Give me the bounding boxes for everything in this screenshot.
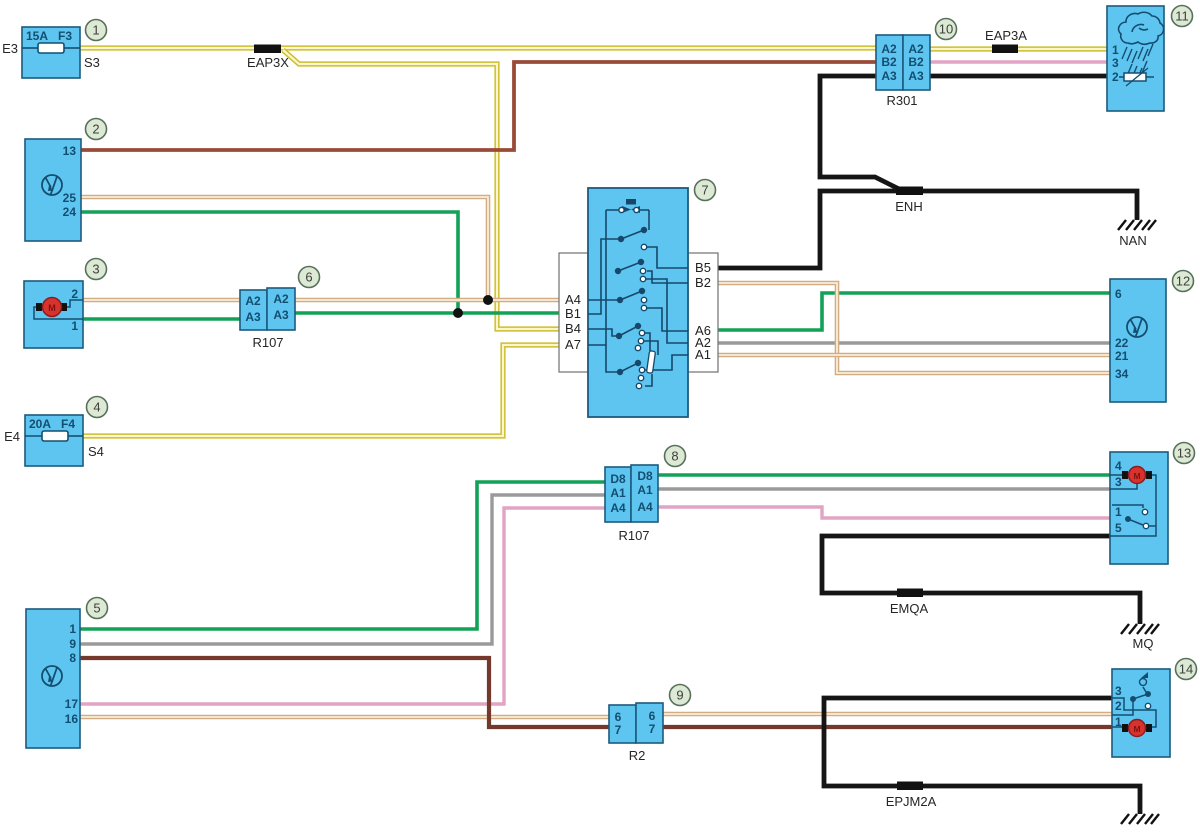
wire tan comp5 pin16 to R2 xyxy=(80,715,609,720)
wire yellow branch EAP3X to B4 xyxy=(283,50,559,329)
splice EAP3A xyxy=(992,45,1018,54)
switch contacts xyxy=(615,227,647,375)
svg-text:13: 13 xyxy=(63,144,77,158)
callout 14 xyxy=(1176,659,1197,680)
svg-text:B2: B2 xyxy=(881,55,897,69)
callout 7 xyxy=(695,180,716,201)
component 2 box xyxy=(25,139,81,241)
svg-text:EPJM2A: EPJM2A xyxy=(886,794,937,809)
svg-text:B1: B1 xyxy=(565,306,581,321)
svg-text:F3: F3 xyxy=(58,29,72,43)
svg-text:B4: B4 xyxy=(565,321,581,336)
callout 9 xyxy=(670,685,691,706)
callout 12 xyxy=(1173,271,1194,292)
svg-text:1: 1 xyxy=(1112,43,1119,57)
svg-text:12: 12 xyxy=(1176,274,1190,289)
svg-text:8: 8 xyxy=(671,449,678,464)
wire tan comp3 pin2 to R107 xyxy=(83,298,240,303)
junction tan node xyxy=(483,295,493,305)
svg-text:3: 3 xyxy=(1115,475,1122,489)
connector strip right xyxy=(688,253,718,372)
svg-text:EAP3X: EAP3X xyxy=(247,55,289,70)
svg-text:S4: S4 xyxy=(88,444,104,459)
splice ENH xyxy=(896,187,923,196)
callout 2 xyxy=(86,119,107,140)
ground EPJM2A xyxy=(1121,814,1159,824)
svg-text:ENH: ENH xyxy=(895,199,922,214)
svg-text:6: 6 xyxy=(649,709,656,723)
component 5 box xyxy=(26,609,80,748)
svg-text:17: 17 xyxy=(65,697,79,711)
svg-text:NAN: NAN xyxy=(1119,233,1146,248)
svg-text:MQ: MQ xyxy=(1133,636,1154,651)
wire green R107 D8 to comp13 pin4 xyxy=(658,473,1110,477)
svg-text:21: 21 xyxy=(1115,349,1129,363)
svg-text:M: M xyxy=(1133,724,1140,734)
component 3 box xyxy=(24,281,83,348)
svg-text:10: 10 xyxy=(939,22,953,37)
svg-text:24: 24 xyxy=(63,205,77,219)
wire yellow fuse F3 to R301 A2 xyxy=(80,45,876,50)
splice EAP3X xyxy=(254,45,281,54)
wire pink R301 B2 to rain sensor pin3 xyxy=(930,60,1108,63)
connector R107 lower xyxy=(605,465,658,522)
svg-text:3: 3 xyxy=(1115,684,1122,698)
svg-text:8: 8 xyxy=(69,651,76,665)
svg-text:11: 11 xyxy=(1175,9,1189,24)
svg-text:7: 7 xyxy=(649,722,656,736)
wire yellow R301 to rain sensor pin1 xyxy=(930,46,1108,51)
svg-text:1: 1 xyxy=(1115,715,1122,729)
callout 11 xyxy=(1172,6,1193,27)
wire brown comp5 pin8 to R2 pin7 xyxy=(80,658,609,727)
splice EPJM2A xyxy=(897,782,923,791)
connector R107 upper xyxy=(240,288,295,330)
svg-text:A3: A3 xyxy=(881,69,897,83)
ground MQ xyxy=(1121,624,1159,634)
fuse box F4 xyxy=(25,415,83,466)
svg-text:13: 13 xyxy=(1177,446,1191,461)
wire tan B2 to comp12 pin34 xyxy=(688,283,1110,373)
svg-text:A1: A1 xyxy=(695,347,711,362)
svg-text:2: 2 xyxy=(92,122,99,137)
wire brown R2 pin7 to comp14 pin1 xyxy=(663,725,1112,729)
svg-text:B2: B2 xyxy=(695,275,711,290)
svg-text:4: 4 xyxy=(1115,459,1122,473)
svg-text:2: 2 xyxy=(1115,699,1122,713)
component 12 box xyxy=(1110,279,1166,402)
callout 1 xyxy=(86,20,107,41)
connector R2 xyxy=(609,703,663,743)
callout 8 xyxy=(665,446,686,467)
svg-text:4: 4 xyxy=(93,400,100,415)
splice EMQA xyxy=(897,589,923,598)
svg-text:1: 1 xyxy=(71,319,78,333)
wire tan R2 to comp14 pin2 xyxy=(663,712,1112,717)
svg-text:A3: A3 xyxy=(273,308,289,322)
connector strip left xyxy=(559,253,588,372)
svg-text:34: 34 xyxy=(1115,367,1129,381)
svg-text:A3: A3 xyxy=(245,310,261,324)
svg-text:A2: A2 xyxy=(273,292,289,306)
svg-text:14: 14 xyxy=(1179,662,1193,677)
svg-text:7: 7 xyxy=(701,183,708,198)
svg-text:A3: A3 xyxy=(908,69,924,83)
svg-text:3: 3 xyxy=(1112,56,1119,70)
svg-text:R107: R107 xyxy=(618,528,649,543)
wire tan comp2 pin25 to junction xyxy=(81,197,488,300)
svg-text:D8: D8 xyxy=(637,469,653,483)
wire gray A2 to comp12 pin22 xyxy=(688,341,1110,344)
svg-text:15A: 15A xyxy=(26,29,48,43)
svg-text:9: 9 xyxy=(676,688,683,703)
svg-text:A4: A4 xyxy=(610,501,626,515)
svg-text:E4: E4 xyxy=(4,429,20,444)
top actuator symbol xyxy=(626,199,636,205)
svg-text:A7: A7 xyxy=(565,337,581,352)
wire brown comp2 pin13 to R301 B2 xyxy=(81,62,876,150)
wire green comp5 pin1 to R107 D8 xyxy=(80,482,605,629)
svg-text:2: 2 xyxy=(1112,70,1119,84)
svg-text:M: M xyxy=(1133,471,1140,481)
svg-text:1: 1 xyxy=(92,23,99,38)
svg-text:1: 1 xyxy=(69,622,76,636)
wire black R301 A3 left branch to ENH xyxy=(820,76,899,189)
junction green node xyxy=(453,308,463,318)
svg-text:16: 16 xyxy=(65,712,79,726)
svg-text:E3: E3 xyxy=(2,41,18,56)
svg-text:22: 22 xyxy=(1115,336,1129,350)
wire gray comp5 pin9 to R107 A1 xyxy=(80,495,605,644)
callout 4 xyxy=(87,397,108,418)
wire green R107 to B1 xyxy=(295,311,559,315)
svg-text:7: 7 xyxy=(615,723,622,737)
callout 5 xyxy=(87,598,108,619)
wire green comp2 pin24 to junction xyxy=(81,212,458,313)
ground NAN xyxy=(1118,220,1156,230)
svg-text:R301: R301 xyxy=(886,93,917,108)
wire black B5 to ENH to ground NAN xyxy=(718,191,1137,268)
svg-text:S3: S3 xyxy=(84,55,100,70)
svg-text:A2: A2 xyxy=(908,42,924,56)
svg-text:3: 3 xyxy=(92,262,99,277)
switch unit box xyxy=(588,188,688,417)
svg-text:A1: A1 xyxy=(637,483,653,497)
wire green A6 to comp12 pin6 xyxy=(688,293,1110,330)
callout 10 xyxy=(936,19,957,40)
svg-text:25: 25 xyxy=(63,191,77,205)
svg-text:A2: A2 xyxy=(245,294,261,308)
wire black comp13 pin5 to EMQA to ground MQ xyxy=(822,536,1140,624)
svg-text:2: 2 xyxy=(71,287,78,301)
svg-text:5: 5 xyxy=(93,601,100,616)
svg-text:6: 6 xyxy=(305,270,312,285)
svg-text:A2: A2 xyxy=(881,42,897,56)
wire gray R107 A1 to comp13 pin3 xyxy=(658,487,1110,490)
wire tan R107 to A4 xyxy=(295,298,559,303)
callout 3 xyxy=(86,259,107,280)
wire black comp14 pin3 to EPJM2A to ground xyxy=(824,698,1140,814)
svg-text:20A: 20A xyxy=(29,417,51,431)
wire pink comp5 pin17 to R107 A4 xyxy=(80,508,605,704)
svg-text:B2: B2 xyxy=(908,55,924,69)
svg-text:D8: D8 xyxy=(610,472,626,486)
svg-text:R2: R2 xyxy=(629,748,646,763)
wire black R301 A3 to rain sensor pin2 xyxy=(930,74,1108,79)
resistor inside switch xyxy=(646,351,655,374)
svg-text:EAP3A: EAP3A xyxy=(985,28,1027,43)
component 14 box xyxy=(1112,669,1170,757)
wire tan A1 to comp12 pin21 xyxy=(688,353,1110,358)
svg-text:EMQA: EMQA xyxy=(890,601,929,616)
svg-text:F4: F4 xyxy=(61,417,75,431)
callout 13 xyxy=(1174,443,1195,464)
svg-text:6: 6 xyxy=(1115,287,1122,301)
component 13 box xyxy=(1110,452,1168,564)
svg-text:1: 1 xyxy=(1115,505,1122,519)
svg-text:B5: B5 xyxy=(695,260,711,275)
connector R301 xyxy=(876,35,930,90)
rain sensor box xyxy=(1107,6,1164,111)
wire pink R107 A4 to comp13 pin1 xyxy=(658,507,1110,518)
wire yellow fuse F4 to A7 xyxy=(83,345,559,436)
svg-text:9: 9 xyxy=(69,637,76,651)
svg-text:A4: A4 xyxy=(637,500,653,514)
svg-text:M: M xyxy=(48,303,56,313)
callout 6 xyxy=(299,267,320,288)
fuse box F3 xyxy=(22,27,80,78)
svg-text:A1: A1 xyxy=(610,486,626,500)
svg-text:5: 5 xyxy=(1115,521,1122,535)
svg-text:6: 6 xyxy=(615,710,622,724)
wire green comp3 pin1 to R107 xyxy=(83,317,240,321)
svg-text:A4: A4 xyxy=(565,292,581,307)
svg-text:R107: R107 xyxy=(252,335,283,350)
